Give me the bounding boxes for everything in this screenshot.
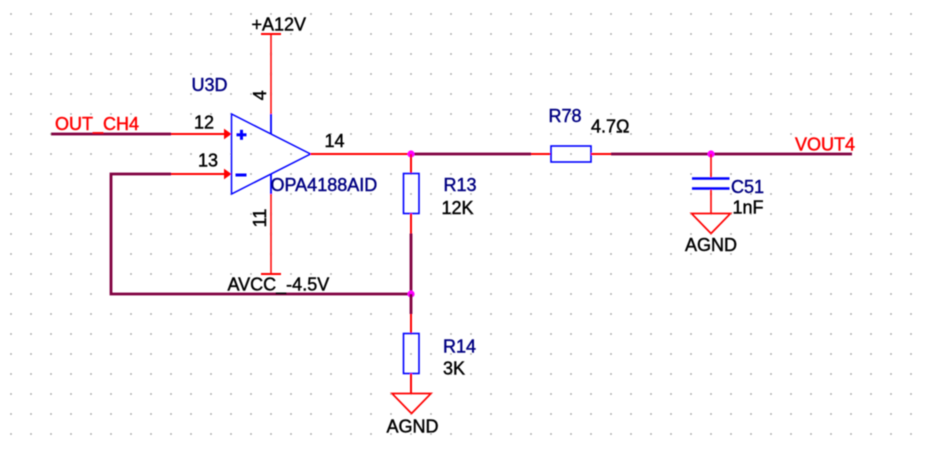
wire output node to R78 (411, 153, 531, 156)
wire feedback (111, 174, 411, 294)
wire R78 to VOUT4 (611, 153, 852, 156)
svg-text:12: 12 (194, 113, 214, 133)
junction node feedback (407, 290, 414, 297)
junction node output (407, 150, 414, 157)
ground AGND at R14 (392, 394, 431, 414)
svg-text:3K: 3K (443, 359, 465, 379)
svg-text:4: 4 (250, 90, 270, 100)
svg-text:VOUT4: VOUT4 (795, 135, 855, 155)
svg-text:R13: R13 (444, 175, 477, 195)
resistor R13 (404, 154, 420, 234)
ground AGND at C51 (692, 214, 731, 234)
svg-text:C51: C51 (731, 177, 764, 197)
svg-text:U3D: U3D (192, 75, 228, 95)
resistor R14 (404, 314, 420, 394)
power AVCC_-4.5V (261, 273, 281, 275)
op-amp U3D (232, 114, 311, 194)
svg-text:OPA4188AID: OPA4188AID (271, 175, 378, 195)
resistor R78 (531, 146, 611, 162)
svg-text:12K: 12K (442, 198, 474, 218)
power +A12V (261, 33, 281, 35)
svg-text:R14: R14 (443, 337, 476, 357)
pin 14 (311, 153, 412, 155)
svg-text:1nF: 1nF (733, 198, 764, 218)
svg-text:13: 13 (198, 151, 218, 171)
capacitor C51 (692, 154, 730, 214)
wire OUT_CH4 (51, 133, 171, 136)
pin 11 (270, 194, 272, 274)
svg-text:11: 11 (250, 209, 270, 228)
svg-text:R78: R78 (549, 106, 582, 126)
svg-text:14: 14 (325, 131, 345, 151)
svg-text:AVCC_-4.5V: AVCC_-4.5V (228, 275, 330, 296)
svg-text:OUT_CH4: OUT_CH4 (55, 114, 139, 135)
pin 13 (171, 169, 232, 180)
svg-text:+A12V: +A12V (252, 15, 307, 35)
svg-text:AGND: AGND (387, 417, 439, 437)
svg-text:AGND: AGND (685, 235, 737, 255)
pin 4 (270, 34, 272, 114)
junction node VOUT4 (707, 150, 714, 157)
svg-text:4.7Ω: 4.7Ω (591, 117, 629, 137)
wire junction to R14 (410, 294, 413, 314)
wire R13 to feedback junction (410, 234, 413, 296)
pin 12 (171, 129, 232, 140)
